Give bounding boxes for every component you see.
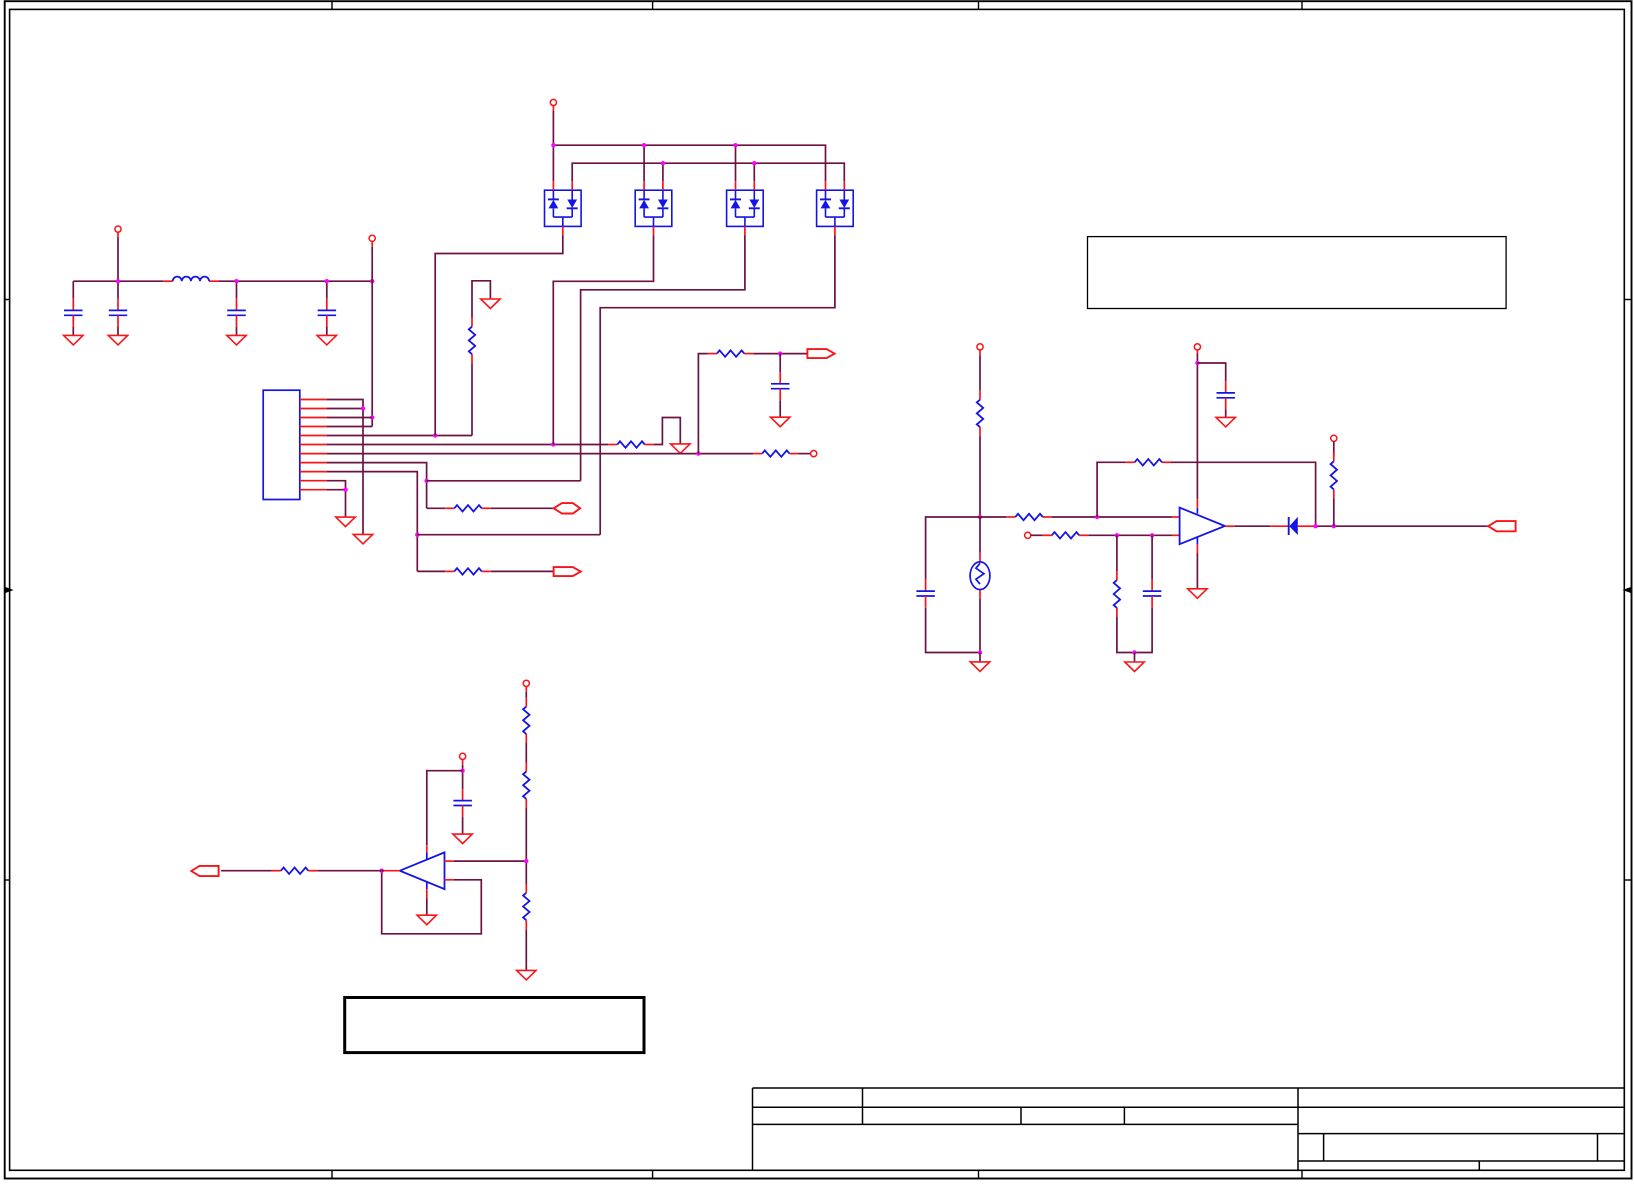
- diode array D4: [817, 190, 854, 226]
- wire pin5 riser to R2: [471, 363, 473, 435]
- wire filter bus left: [73, 280, 163, 282]
- ground pins 1-2: [353, 534, 372, 544]
- wire U1 vee to ground: [1196, 537, 1198, 544]
- resistor R13: [979, 391, 981, 400]
- ground C7: [1225, 410, 1227, 418]
- wire pin7 riser: [698, 354, 708, 454]
- ground below C4: [317, 335, 336, 345]
- right center arrow marker: [1623, 587, 1632, 593]
- junction pullup at output: [1332, 524, 1336, 528]
- resistor R4: [753, 453, 762, 455]
- title block: [753, 1087, 1625, 1089]
- junction divider mid: [524, 859, 528, 863]
- terminal P4: [550, 99, 556, 105]
- wire bus drops to diode pins: [552, 145, 554, 181]
- wire U2 feedback: [445, 879, 454, 881]
- junction feedback tap: [1095, 515, 1099, 519]
- junction bus1 D3: [733, 143, 737, 147]
- op-amp U2: [400, 852, 445, 889]
- capacitor C5: [925, 579, 927, 591]
- junction bus at C4: [325, 279, 329, 283]
- flag output buffer: [191, 866, 218, 876]
- resistor R2: [471, 318, 473, 327]
- wire pin8 to R6: [427, 507, 446, 509]
- ground C8: [462, 817, 464, 834]
- diode D5: [1270, 525, 1289, 527]
- wire P10 to R15: [525, 692, 527, 698]
- resistor R6: [445, 507, 454, 509]
- wire pin9 to D4 riser: [417, 534, 600, 536]
- resistor R14: [1116, 571, 1118, 580]
- capacitor C3: [236, 281, 238, 299]
- wire R6 to flag: [491, 507, 554, 509]
- wire R7 to flag: [491, 570, 554, 572]
- terminal P5: [977, 344, 983, 350]
- resistor R9: [1043, 534, 1052, 536]
- ground R3: [671, 444, 690, 454]
- resistor R3: [608, 444, 617, 446]
- junction C9 tap: [778, 351, 782, 355]
- terminal P10: [523, 680, 529, 686]
- wire diode bus1: [553, 145, 825, 181]
- wire P2 down to connector pins 3-4: [371, 247, 373, 427]
- wire pin8: [327, 463, 427, 509]
- wire P5 to R13: [979, 355, 981, 390]
- junction bus2 D3: [752, 161, 756, 165]
- junction feedback at output: [1313, 524, 1317, 528]
- wire R4 to P3: [799, 453, 811, 455]
- ground pins 10-11: [336, 517, 355, 527]
- resistor R7: [445, 570, 454, 572]
- wire bypass branch: [1197, 363, 1225, 381]
- wire P8 to R12: [1333, 447, 1335, 456]
- junction node thermistor top: [978, 515, 982, 519]
- ground C9: [771, 417, 790, 427]
- wire P4 to bus1: [552, 111, 554, 145]
- wire D2 bottom to pin6: [553, 236, 653, 445]
- wire D3 bottom: [581, 236, 745, 481]
- wire pin3: [327, 417, 372, 419]
- wire C6 to gnd rail: [1135, 608, 1153, 653]
- note box top right: [1088, 237, 1507, 309]
- capacitor C6: [1151, 579, 1153, 591]
- wire U2 plus input: [445, 860, 454, 862]
- wire R3 jog to ground: [654, 418, 681, 445]
- thermistor RT1 stubs: [979, 517, 981, 553]
- junction bus1 P4: [551, 143, 555, 147]
- junction pin9: [415, 533, 419, 537]
- wire minus to R14: [1116, 535, 1118, 571]
- wire R9 to U1 minus: [1088, 534, 1172, 536]
- ground U1: [1188, 589, 1207, 599]
- capacitor C9: [779, 354, 781, 373]
- wire R17 to ground: [525, 929, 527, 970]
- wire R15 to R16: [525, 743, 527, 763]
- wire C5 to gnd rail: [926, 608, 980, 653]
- terminal P2: [369, 235, 375, 241]
- junction pin5: [433, 433, 437, 437]
- inductor L1: [163, 280, 172, 282]
- wire pin9: [327, 472, 417, 572]
- wire node to R8: [980, 516, 1006, 518]
- wire feedback to output: [1171, 462, 1316, 526]
- wire R5 to flag: [753, 353, 807, 355]
- wire pin9 to R7: [417, 570, 445, 572]
- resistor R15: [525, 698, 527, 707]
- left center arrow marker: [5, 587, 14, 593]
- capacitor C2: [117, 281, 119, 299]
- wire feedback up: [1097, 462, 1126, 517]
- resistor R16: [525, 763, 527, 772]
- ground thermistor: [979, 653, 981, 662]
- junction pin7 RC tap: [696, 451, 700, 455]
- wire pin8 to D3 riser: [427, 480, 581, 482]
- wire U2 output: [384, 870, 400, 872]
- resistor R17: [525, 884, 527, 893]
- capacitor C8: [462, 789, 464, 801]
- flag output top right: [807, 349, 834, 358]
- op-amp U1: [1180, 508, 1225, 545]
- ground below C3: [227, 335, 246, 345]
- wire D4 bottom: [600, 236, 835, 535]
- wire R16 to junction: [525, 808, 527, 884]
- wire node to C5: [926, 517, 980, 579]
- ground U2: [417, 915, 436, 925]
- capacitor C7: [1225, 381, 1227, 393]
- resistor R12 pullup: [1333, 452, 1335, 461]
- terminal P1: [115, 226, 121, 232]
- wire R8 to U1 plus: [1052, 516, 1173, 518]
- wire D5 to output flag: [1314, 525, 1489, 527]
- junction bypass tap: [1195, 361, 1199, 365]
- resistor R10 feedback: [1126, 461, 1135, 463]
- junction bus at C3: [234, 279, 238, 283]
- wire filter bus right: [218, 280, 372, 282]
- ground below C2: [108, 335, 127, 345]
- wire pin10: [327, 481, 346, 517]
- resistor R5: [708, 353, 717, 355]
- wire diode bus2: [572, 163, 844, 181]
- junction pin2: [361, 406, 365, 410]
- terminal P8 pullup: [1331, 435, 1337, 441]
- junction bus at C2: [116, 279, 120, 283]
- terminal P7 opamp supply: [1194, 344, 1200, 350]
- terminal P6 minus input: [1025, 532, 1031, 538]
- wire P1 to bus: [117, 238, 119, 282]
- junction pin11: [343, 488, 347, 492]
- wire pin1 to ground rail: [327, 400, 363, 535]
- diode array D2: [635, 190, 672, 226]
- junction U2 output: [380, 869, 384, 873]
- diode array D1: [545, 190, 582, 226]
- wire pin4: [327, 426, 372, 428]
- wire R12 to output: [1333, 498, 1335, 526]
- wire supply to U2: [427, 771, 463, 846]
- junction R14 tap: [1115, 533, 1119, 537]
- capacitor C4: [326, 281, 328, 299]
- wire R14 to gnd rail: [1117, 617, 1135, 653]
- terminal P9: [460, 753, 466, 759]
- junction U2 supply tap: [460, 769, 464, 773]
- junction bus1 D2: [642, 143, 646, 147]
- wire R11 to flag: [221, 870, 272, 872]
- resistor R8: [1006, 516, 1015, 518]
- wire P6 to R9: [1031, 534, 1043, 536]
- connector J1: [263, 390, 300, 499]
- wire R2 top jog to ground: [472, 281, 490, 318]
- junction pin6: [551, 442, 555, 446]
- note box bottom left: [345, 998, 644, 1053]
- junction C6 tap: [1150, 533, 1154, 537]
- flag output comparator: [1488, 521, 1515, 531]
- border zone tick marks: [331, 1, 333, 9]
- junction bus at P2 drop: [370, 279, 374, 283]
- flag output pin9: [554, 567, 581, 576]
- resistor R11: [272, 870, 281, 872]
- wire P7 down to U1: [1196, 354, 1198, 500]
- wire pin5: [327, 435, 472, 437]
- thermistor RT1: [970, 562, 990, 590]
- junction gnd rail left: [978, 650, 982, 654]
- wire pin11: [327, 489, 346, 491]
- flag bidir pin8: [554, 503, 581, 513]
- wire pin6: [327, 444, 608, 446]
- wire D1 bottom to pin5: [435, 236, 563, 436]
- ground R2: [481, 299, 500, 309]
- ground R14 C6: [1134, 653, 1136, 663]
- wire pin7: [327, 453, 753, 455]
- ground divider: [517, 970, 536, 980]
- wire R13 to node: [979, 436, 981, 517]
- junction pin8: [424, 479, 428, 483]
- junction bus2 D2: [661, 161, 665, 165]
- junction gnd rail right: [1132, 650, 1136, 654]
- wire minus to C6: [1151, 535, 1153, 579]
- ground below C1: [64, 335, 83, 345]
- wire pin2: [327, 408, 363, 410]
- diode array D3: [727, 190, 764, 226]
- wire P9 down: [462, 765, 464, 789]
- wire U2 vee to ground: [426, 882, 428, 890]
- terminal P3: [811, 451, 817, 457]
- wire U1 output: [1225, 525, 1235, 527]
- capacitor C1: [72, 281, 74, 299]
- junction P2 net at pin3: [370, 415, 374, 419]
